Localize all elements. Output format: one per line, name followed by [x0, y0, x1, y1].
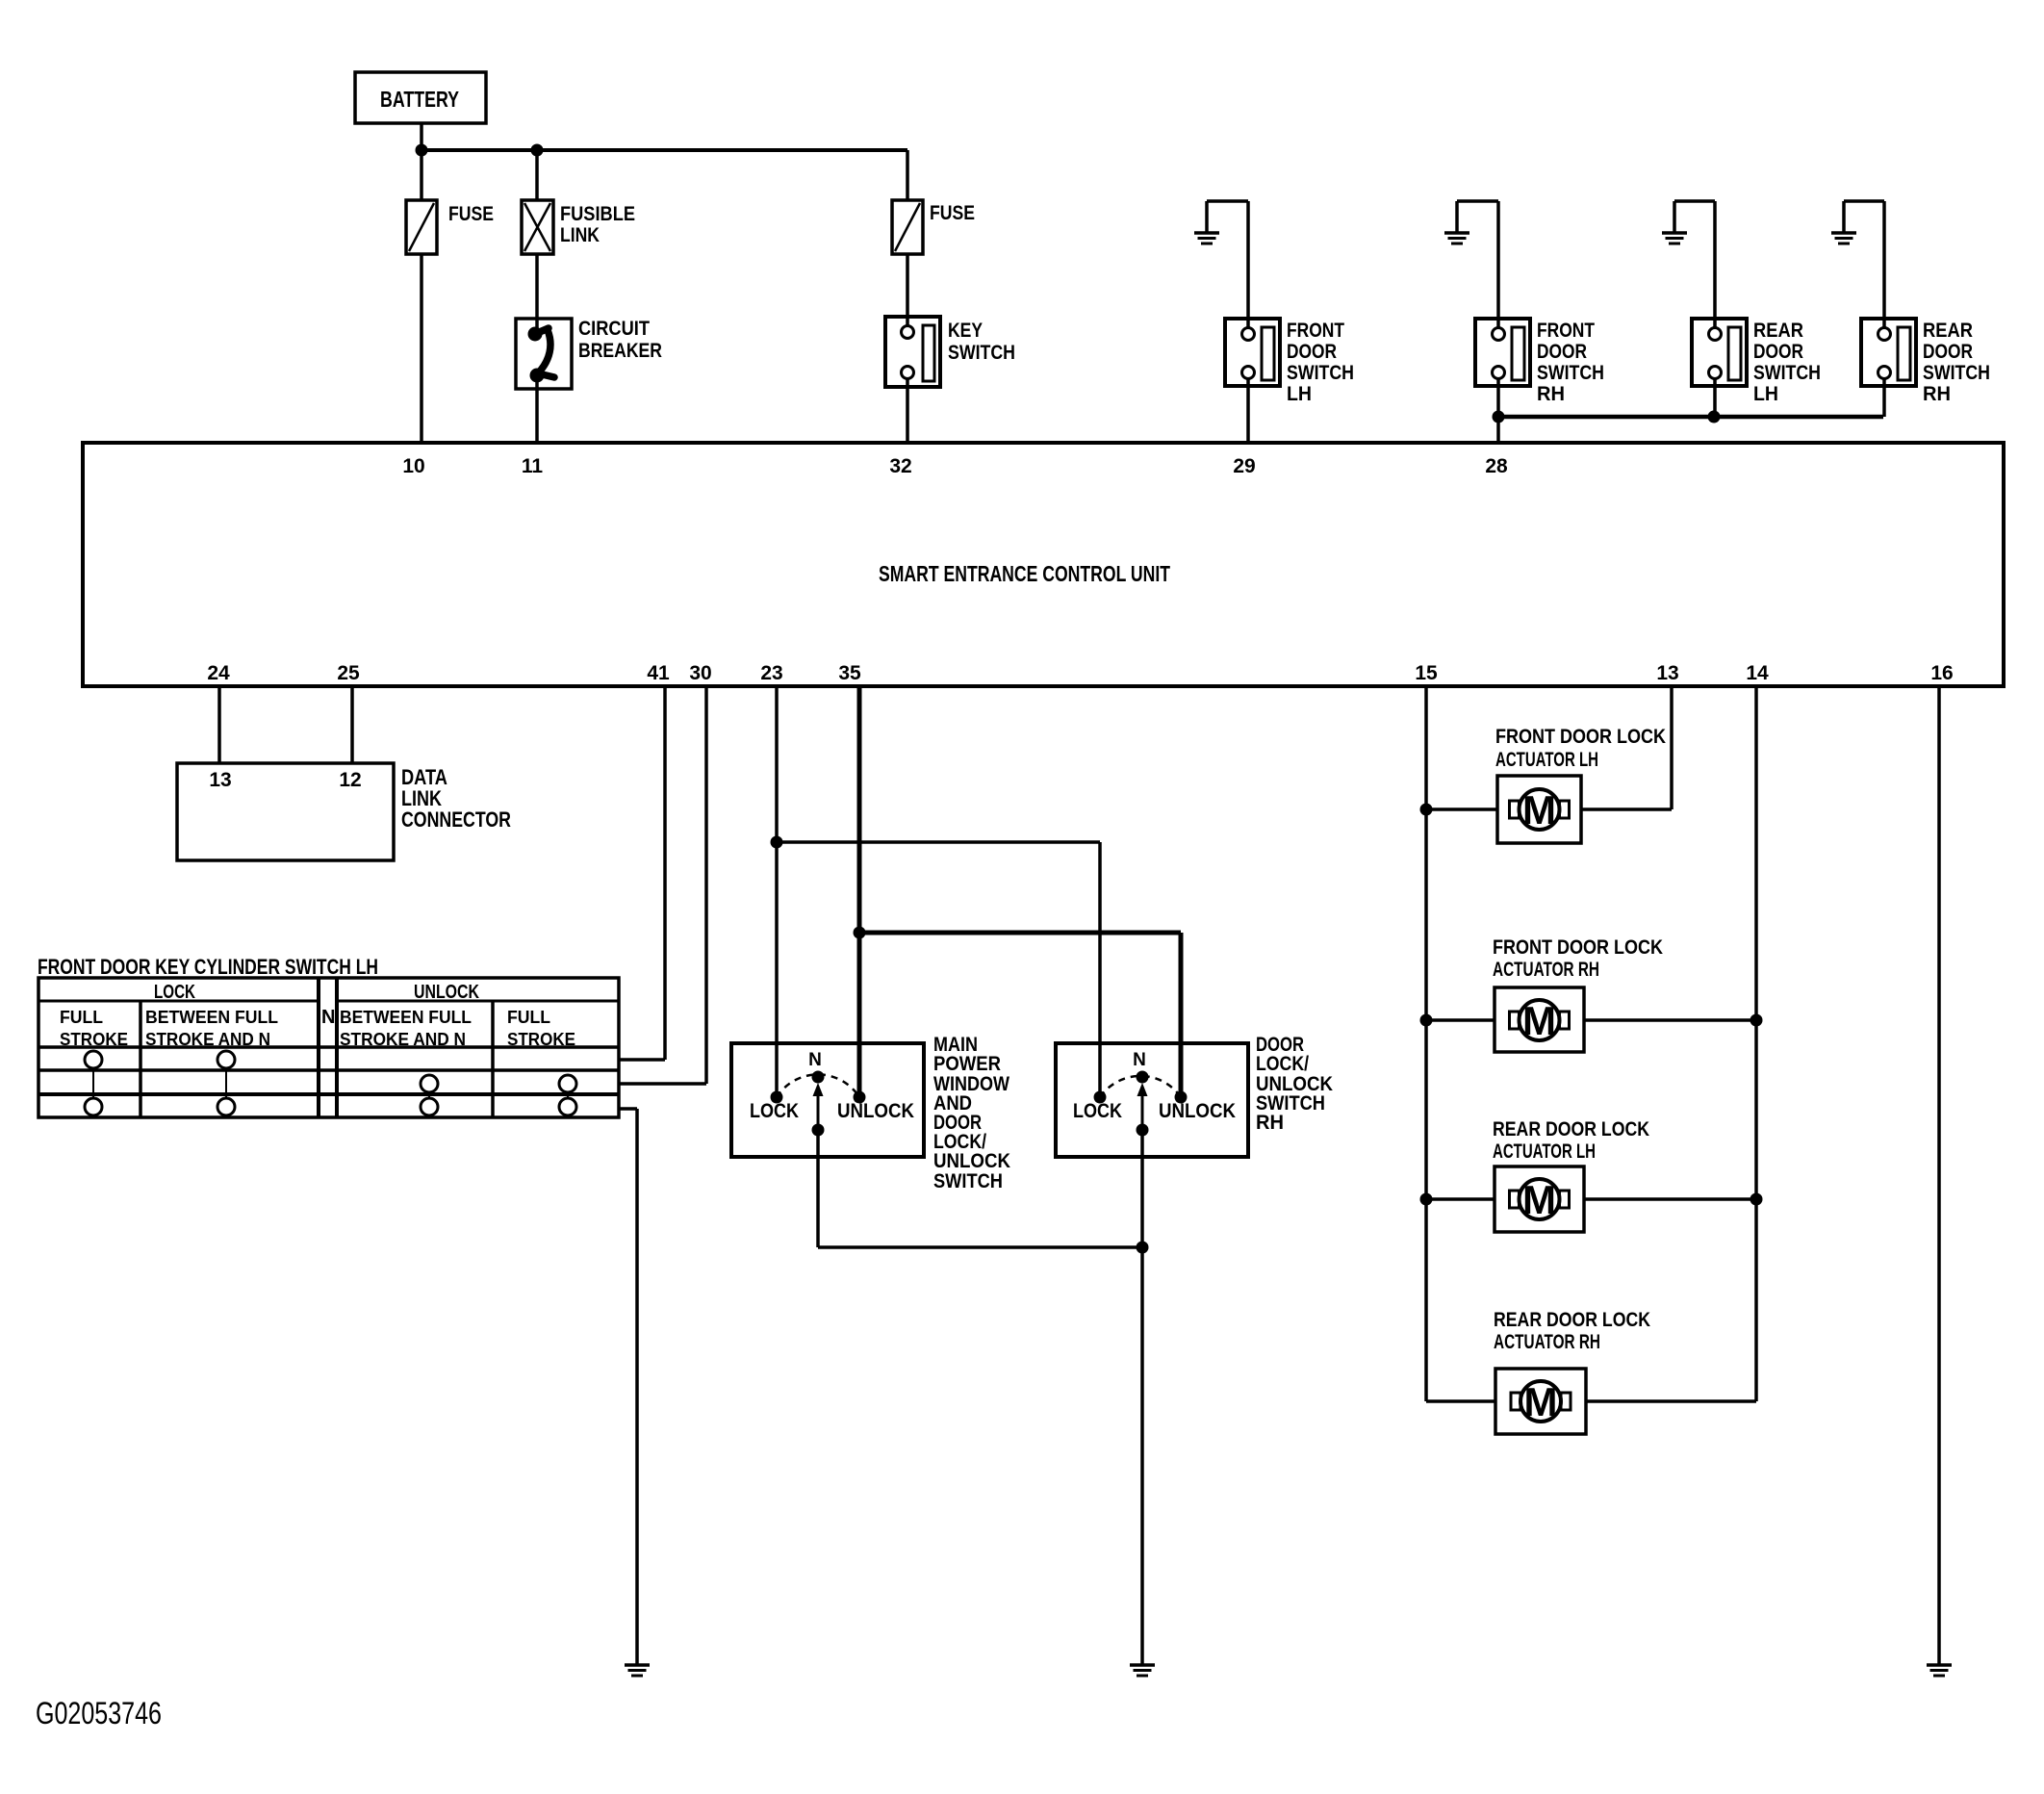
svg-text:G02053746: G02053746	[36, 1696, 162, 1730]
svg-text:FRONT DOOR LOCK: FRONT DOOR LOCK	[1493, 936, 1663, 959]
svg-text:SWITCH: SWITCH	[1287, 362, 1354, 384]
svg-text:UNLOCK: UNLOCK	[837, 1100, 914, 1122]
svg-text:FULL: FULL	[60, 1008, 103, 1027]
svg-text:LINK: LINK	[560, 224, 600, 246]
svg-text:STROKE: STROKE	[507, 1030, 575, 1049]
svg-text:BETWEEN FULL: BETWEEN FULL	[145, 1008, 278, 1027]
svg-text:15: 15	[1415, 662, 1438, 684]
svg-text:14: 14	[1746, 662, 1769, 684]
svg-text:FRONT: FRONT	[1537, 320, 1595, 342]
svg-text:UNLOCK: UNLOCK	[1159, 1100, 1236, 1122]
svg-text:STROKE AND N: STROKE AND N	[145, 1030, 270, 1049]
svg-text:STROKE AND N: STROKE AND N	[340, 1030, 466, 1049]
svg-text:LH: LH	[1753, 383, 1778, 405]
svg-text:FRONT DOOR LOCK: FRONT DOOR LOCK	[1495, 726, 1666, 748]
svg-text:FULL: FULL	[507, 1008, 550, 1027]
svg-text:N: N	[1133, 1050, 1146, 1070]
svg-text:SWITCH: SWITCH	[948, 342, 1015, 364]
svg-text:12: 12	[339, 769, 361, 791]
svg-text:N: N	[321, 1007, 335, 1028]
svg-text:DOOR: DOOR	[1287, 341, 1337, 363]
svg-text:REAR: REAR	[1753, 320, 1803, 342]
svg-text:BATTERY: BATTERY	[380, 87, 459, 112]
svg-text:UNLOCK: UNLOCK	[414, 982, 479, 1003]
svg-text:M: M	[1522, 998, 1556, 1043]
svg-text:M: M	[1522, 1177, 1556, 1222]
svg-text:N: N	[808, 1050, 822, 1070]
svg-text:DOOR: DOOR	[1753, 341, 1803, 363]
svg-text:23: 23	[760, 662, 782, 684]
svg-text:24: 24	[207, 662, 230, 684]
svg-text:POWER: POWER	[933, 1053, 1001, 1075]
svg-text:BETWEEN FULL: BETWEEN FULL	[340, 1008, 472, 1027]
svg-text:RH: RH	[1256, 1112, 1284, 1134]
svg-text:25: 25	[337, 662, 360, 684]
svg-text:ACTUATOR LH: ACTUATOR LH	[1495, 749, 1598, 771]
svg-text:FUSIBLE: FUSIBLE	[560, 203, 635, 225]
svg-text:SWITCH: SWITCH	[1923, 362, 1990, 384]
svg-text:LOCK: LOCK	[750, 1100, 799, 1122]
svg-text:DOOR: DOOR	[1537, 341, 1587, 363]
svg-text:13: 13	[209, 769, 231, 791]
svg-text:ACTUATOR RH: ACTUATOR RH	[1493, 959, 1599, 981]
svg-text:13: 13	[1656, 662, 1678, 684]
svg-text:30: 30	[689, 662, 711, 684]
svg-text:LOCK/: LOCK/	[1256, 1053, 1309, 1075]
svg-text:FRONT DOOR KEY CYLINDER SWITCH: FRONT DOOR KEY CYLINDER SWITCH LH	[38, 955, 378, 979]
svg-text:FUSE: FUSE	[448, 203, 494, 225]
svg-text:SWITCH: SWITCH	[1753, 362, 1821, 384]
svg-text:RH: RH	[1537, 383, 1565, 405]
svg-text:DOOR: DOOR	[1923, 341, 1973, 363]
svg-text:FRONT: FRONT	[1287, 320, 1344, 342]
svg-text:REAR DOOR LOCK: REAR DOOR LOCK	[1493, 1118, 1649, 1140]
svg-text:ACTUATOR RH: ACTUATOR RH	[1494, 1331, 1600, 1353]
svg-text:M: M	[1524, 1379, 1558, 1424]
svg-text:M: M	[1522, 787, 1556, 833]
svg-text:SMART ENTRANCE CONTROL UNIT: SMART ENTRANCE CONTROL UNIT	[879, 561, 1170, 586]
svg-text:KEY: KEY	[948, 320, 983, 342]
svg-text:LOCK: LOCK	[154, 982, 195, 1003]
svg-text:29: 29	[1233, 455, 1255, 477]
svg-text:28: 28	[1485, 455, 1508, 477]
svg-text:SWITCH: SWITCH	[933, 1170, 1003, 1192]
svg-text:32: 32	[889, 455, 911, 477]
svg-text:STROKE: STROKE	[60, 1030, 128, 1049]
svg-text:SWITCH: SWITCH	[1537, 362, 1604, 384]
svg-text:CONNECTOR: CONNECTOR	[401, 807, 511, 832]
svg-text:ACTUATOR LH: ACTUATOR LH	[1493, 1140, 1596, 1163]
svg-text:16: 16	[1930, 662, 1953, 684]
svg-text:CIRCUIT: CIRCUIT	[578, 318, 650, 340]
svg-text:LH: LH	[1287, 383, 1312, 405]
svg-text:REAR DOOR LOCK: REAR DOOR LOCK	[1494, 1309, 1650, 1331]
svg-text:BREAKER: BREAKER	[578, 340, 662, 362]
svg-text:FUSE: FUSE	[930, 202, 975, 224]
svg-text:RH: RH	[1923, 383, 1951, 405]
svg-text:REAR: REAR	[1923, 320, 1973, 342]
svg-text:41: 41	[647, 662, 670, 684]
svg-text:LOCK: LOCK	[1073, 1100, 1122, 1122]
svg-text:35: 35	[838, 662, 861, 684]
svg-text:11: 11	[522, 455, 544, 477]
svg-text:UNLOCK: UNLOCK	[933, 1150, 1010, 1172]
svg-text:10: 10	[402, 455, 424, 477]
